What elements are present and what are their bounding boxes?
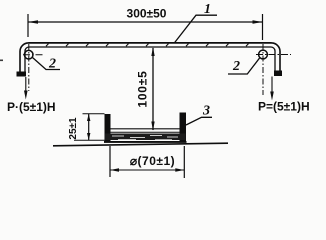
bar specimen top edge <box>29 42 272 44</box>
left hook outer contour <box>20 43 29 74</box>
svg-text:25±1: 25±1 <box>68 117 79 140</box>
dimension 300±50 left arrow <box>28 20 38 24</box>
dimension 300±50 right arrow <box>253 20 263 24</box>
svg-text:2: 2 <box>232 59 240 74</box>
bar tick marks <box>46 44 249 47</box>
svg-text:300±50: 300±50 <box>127 7 167 21</box>
trough right wall <box>180 113 187 143</box>
callout 3 leader <box>186 117 212 125</box>
dimension 25±1 top arrow <box>87 114 90 121</box>
liquid layer (dark hatched) <box>105 134 186 141</box>
trough left wall <box>105 114 111 143</box>
svg-text:2: 2 <box>48 57 56 72</box>
callout 2 right leader <box>228 58 260 74</box>
dimension 100±5 top arrow <box>151 47 154 56</box>
right pin circle <box>259 50 268 59</box>
callout 1 leader <box>175 15 217 42</box>
svg-text:100±5: 100±5 <box>136 70 150 107</box>
dimension 25±1 top extension <box>83 113 105 115</box>
bar specimen bottom edge <box>29 46 271 48</box>
dimension ⌀(70±1) left arrow <box>110 168 119 172</box>
dimension 300±50 extension line right <box>262 14 264 40</box>
left vertical centerline dash-dot <box>28 44 30 91</box>
left pin circle <box>24 50 33 59</box>
right hook inner contour <box>271 47 275 71</box>
dimension 100±5 line <box>152 48 154 130</box>
scan speck left edge <box>0 60 3 62</box>
svg-text:P·(5±1)H: P·(5±1)H <box>7 100 56 114</box>
dimension ⌀(70±1) right arrow <box>175 168 184 172</box>
svg-text:1: 1 <box>204 2 211 17</box>
left pin horizontal centerline <box>23 54 43 56</box>
dimension ⌀(70±1) right extension <box>183 146 185 178</box>
right hook outer contour <box>272 43 281 75</box>
left hook foot <box>17 72 27 77</box>
dimension 300±50 line <box>28 21 263 23</box>
dimension 25±1 line <box>88 114 90 141</box>
svg-text:3: 3 <box>202 104 210 119</box>
right vertical centerline dash-dot <box>262 44 264 95</box>
dimension 100±5 bottom arrow <box>151 122 154 131</box>
dimension ⌀(70±1) left extension <box>109 146 111 177</box>
right pin horizontal centerline <box>256 54 291 56</box>
liquid surface line 1 <box>111 128 180 130</box>
liquid surface line 2 <box>111 131 180 133</box>
svg-text:⌀(70±1): ⌀(70±1) <box>130 154 175 168</box>
trough bottom plate <box>104 141 187 143</box>
left hook inner contour <box>25 47 29 72</box>
dimension 300±50 extension line left <box>27 14 29 37</box>
right hook foot <box>274 71 282 77</box>
dimension 25±1 bottom arrow <box>87 133 90 140</box>
ground line <box>53 143 228 146</box>
left force arrow <box>25 77 27 93</box>
svg-text:P=(5±1)H: P=(5±1)H <box>258 100 310 114</box>
dimension ⌀(70±1) line <box>110 169 184 171</box>
callout 2 left leader <box>33 58 61 70</box>
right force arrow <box>271 77 273 95</box>
dimension 25±1 bottom extension <box>74 139 105 141</box>
